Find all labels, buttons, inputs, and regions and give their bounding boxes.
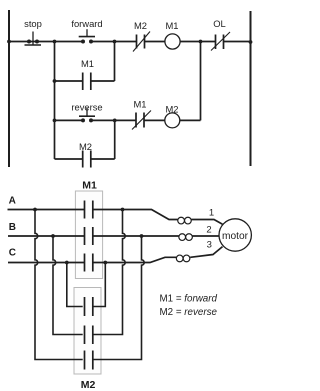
svg-text:M1: M1 xyxy=(82,180,97,192)
svg-text:A: A xyxy=(9,196,16,207)
svg-text:1: 1 xyxy=(209,208,214,219)
svg-text:3: 3 xyxy=(207,240,212,251)
svg-text:M1: M1 xyxy=(133,99,146,110)
svg-text:M1: M1 xyxy=(81,58,94,69)
svg-text:forward: forward xyxy=(71,18,102,29)
svg-text:M2: M2 xyxy=(79,141,92,152)
svg-text:reverse: reverse xyxy=(71,102,102,113)
svg-text:2: 2 xyxy=(206,225,211,236)
svg-text:C: C xyxy=(9,248,16,259)
svg-text:motor: motor xyxy=(222,231,249,242)
svg-text:M2 = reverse: M2 = reverse xyxy=(160,307,218,318)
svg-text:stop: stop xyxy=(24,18,42,29)
svg-text:M2: M2 xyxy=(81,379,96,391)
svg-text:M2: M2 xyxy=(134,20,147,31)
svg-text:M1: M1 xyxy=(165,20,178,31)
svg-text:B: B xyxy=(9,222,16,233)
svg-text:OL: OL xyxy=(213,18,226,29)
svg-text:M2: M2 xyxy=(165,104,178,115)
svg-text:M1 = forward: M1 = forward xyxy=(160,294,218,305)
